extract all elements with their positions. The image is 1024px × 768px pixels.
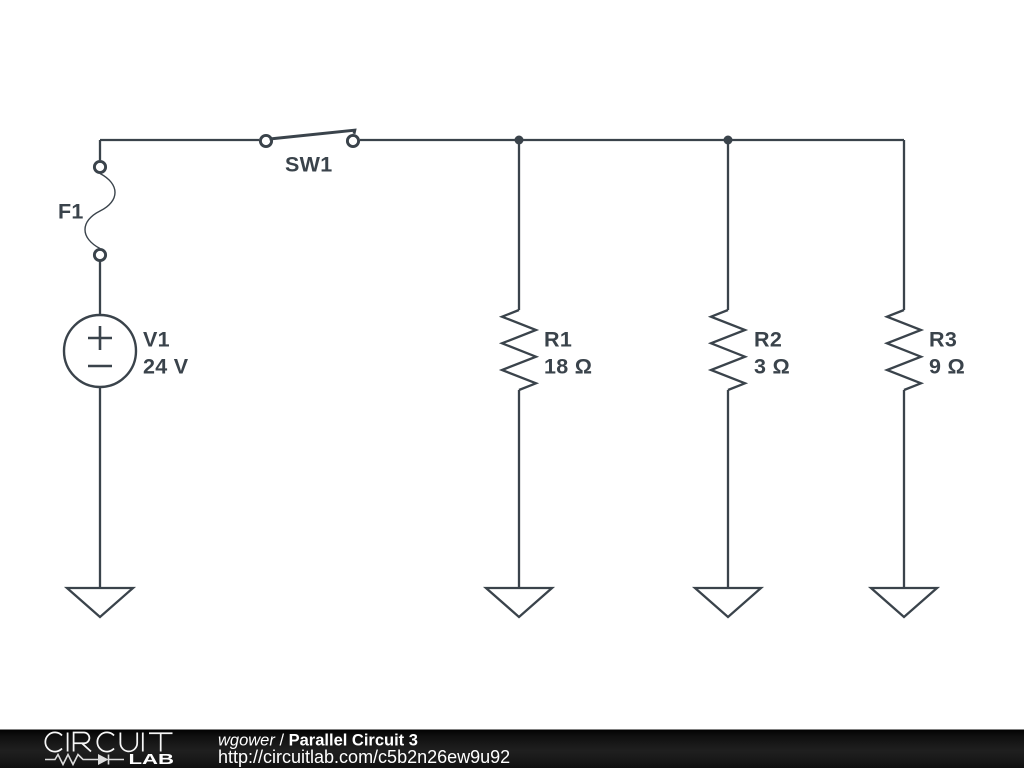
wire R3 drop (903, 140, 905, 310)
svg-text:9 Ω: 9 Ω (929, 355, 965, 379)
ground (R2) (695, 588, 761, 617)
wire top rail left segment (100, 139, 259, 141)
node junction dot A (515, 136, 524, 145)
CircuitLab logo symbol line (resistor + diode) (45, 755, 124, 765)
resistor R2 (711, 310, 745, 390)
wire R1 to ground (518, 390, 520, 588)
svg-text:18 Ω: 18 Ω (544, 355, 592, 379)
wire R2 drop (727, 140, 729, 310)
svg-text:R3: R3 (929, 328, 957, 352)
svg-text:LAB: LAB (129, 751, 175, 768)
wire R1 drop (518, 140, 520, 310)
svg-text:24 V: 24 V (143, 355, 189, 379)
ground (R1) (486, 588, 552, 617)
wire fuse to V1 (99, 262, 101, 316)
svg-text:3 Ω: 3 Ω (754, 355, 790, 379)
svg-text:F1: F1 (58, 200, 84, 224)
wire V1 to ground (99, 387, 101, 588)
svg-text:V1: V1 (143, 328, 170, 352)
wire R3 to ground (903, 390, 905, 588)
wire fuse stub (99, 140, 101, 160)
CircuitLab logo CIRCUIT (45, 732, 172, 751)
CircuitLab logo diode triangle (98, 754, 109, 765)
svg-text:SW1: SW1 (285, 153, 333, 177)
wire R2 to ground (727, 390, 729, 588)
fuse F1 (85, 161, 115, 260)
wire top rail right segment (360, 139, 904, 141)
svg-text:R1: R1 (544, 328, 572, 352)
resistor R3 (887, 310, 921, 390)
svg-text:http://circuitlab.com/c5b2n26e: http://circuitlab.com/c5b2n26ew9u92 (218, 747, 510, 767)
voltage source V1 (64, 315, 136, 387)
switch SW1 (260, 130, 358, 146)
svg-text:R2: R2 (754, 328, 782, 352)
node junction dot B (724, 136, 733, 145)
ground (R3) (871, 588, 937, 617)
ground (V1) (67, 588, 133, 617)
resistor R1 (502, 310, 536, 390)
